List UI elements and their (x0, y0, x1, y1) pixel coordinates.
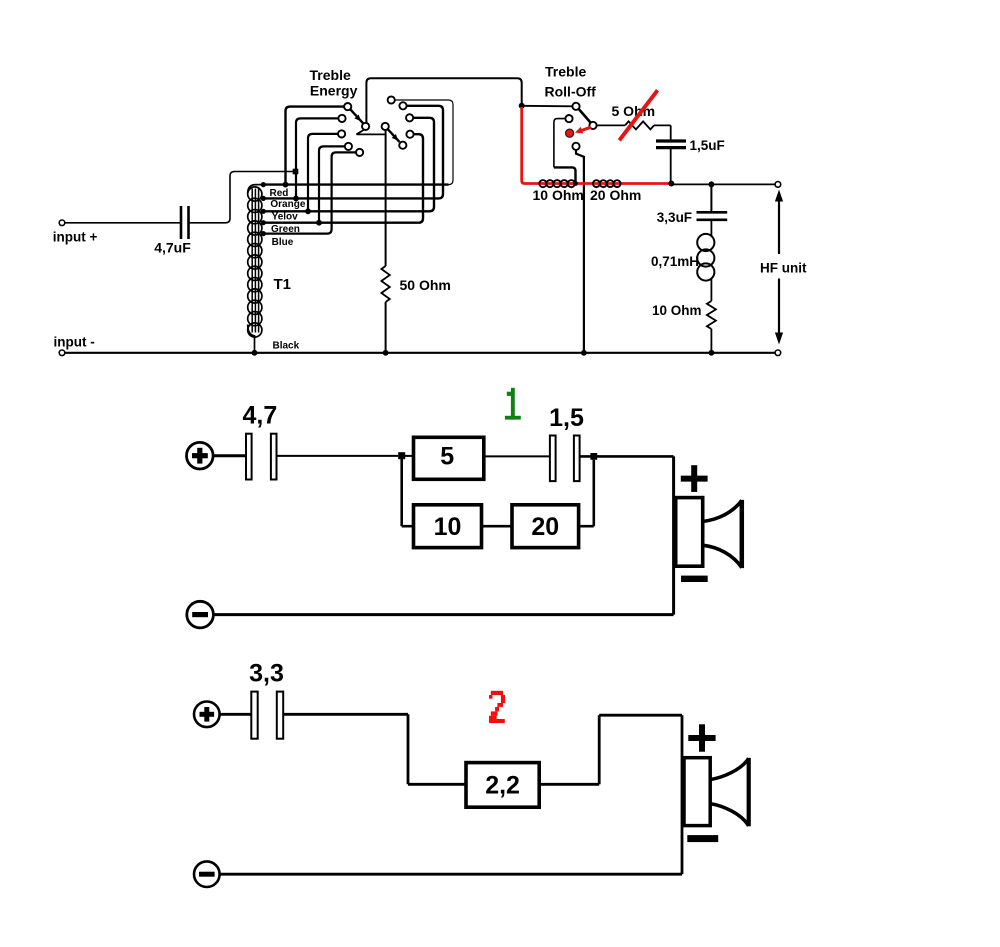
svg-text:input -: input - (54, 334, 95, 349)
svg-text:Yelov: Yelov (272, 212, 299, 223)
svg-text:4,7uF: 4,7uF (154, 240, 191, 256)
svg-text:10 Ohm: 10 Ohm (533, 187, 584, 203)
svg-text:3,3uF: 3,3uF (657, 210, 692, 225)
svg-text:HF unit: HF unit (760, 260, 807, 275)
svg-text:T1: T1 (274, 276, 292, 293)
svg-text:10 Ohm: 10 Ohm (652, 303, 702, 318)
svg-text:Orange: Orange (270, 199, 305, 210)
svg-text:Treble: Treble (310, 67, 351, 83)
svg-text:Energy: Energy (310, 83, 358, 99)
svg-text:Treble: Treble (545, 64, 586, 80)
svg-text:4,7: 4,7 (243, 402, 278, 430)
svg-text:Black: Black (273, 341, 300, 352)
svg-text:input +: input + (53, 230, 98, 245)
svg-text:2,2: 2,2 (485, 772, 520, 800)
svg-text:0,71mH: 0,71mH (651, 254, 699, 269)
svg-text:3,3: 3,3 (249, 660, 284, 688)
svg-text:50 Ohm: 50 Ohm (400, 277, 451, 293)
svg-text:20 Ohm: 20 Ohm (590, 187, 641, 203)
svg-text:10: 10 (434, 513, 462, 541)
svg-text:1,5: 1,5 (549, 404, 584, 432)
svg-text:1,5uF: 1,5uF (690, 138, 725, 153)
svg-text:Roll-Off: Roll-Off (545, 84, 597, 100)
svg-text:Blue: Blue (272, 237, 294, 248)
svg-text:20: 20 (531, 513, 559, 541)
svg-text:5: 5 (440, 442, 454, 470)
